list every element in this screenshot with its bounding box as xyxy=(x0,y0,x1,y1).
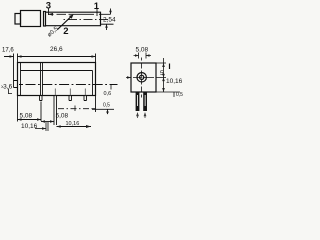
tick near centerline end xyxy=(110,85,112,90)
interior partition (pin1) xyxy=(41,63,43,96)
hidden pin lines inside body xyxy=(55,89,85,96)
svg-text:3: 3 xyxy=(46,1,51,12)
top view: body xyxy=(21,11,41,27)
svg-text:5,08: 5,08 xyxy=(20,113,33,120)
dim line pin2 to right xyxy=(57,126,92,128)
inner liner top xyxy=(21,70,93,72)
top view: end cap xyxy=(15,14,21,25)
tick below bottom ext xyxy=(173,92,175,97)
top view: collar xyxy=(44,12,46,27)
lead 1 centerline with left arrow xyxy=(48,13,111,15)
bushing inner circle xyxy=(140,75,144,79)
ext top edge right xyxy=(156,62,166,64)
bushing outer circle xyxy=(137,73,146,82)
svg-text:0,6: 0,6 xyxy=(104,91,112,97)
dim 10,16 line xyxy=(35,128,46,130)
svg-text:2,54: 2,54 xyxy=(103,17,116,24)
extension line stud left face xyxy=(13,54,15,81)
end view horizontal centerline xyxy=(126,77,150,79)
svg-text:1: 1 xyxy=(94,1,100,12)
svg-text:10,16: 10,16 xyxy=(166,78,183,85)
dim 2,54 ticks above xyxy=(139,53,147,59)
tick on extended line xyxy=(107,109,109,114)
svg-text:17,6: 17,6 xyxy=(2,48,14,54)
end view vertical centerline xyxy=(141,58,143,98)
extension body right xyxy=(95,54,97,63)
pin1 extension down xyxy=(40,102,42,122)
dim line 1,76 / 26,6 xyxy=(4,56,96,58)
dim line 5,08 second xyxy=(41,121,54,123)
bottom bent lead xyxy=(101,23,114,25)
dim 10,16 extension xyxy=(46,122,48,131)
svg-text:5,08: 5,08 xyxy=(136,47,149,54)
right edge extension down xyxy=(95,96,97,113)
extension body left xyxy=(17,54,19,63)
tick on dash line xyxy=(74,106,76,112)
svg-text:›3,6: ›3,6 xyxy=(1,84,13,91)
svg-text:0,5: 0,5 xyxy=(103,103,110,109)
pin 4 xyxy=(84,96,87,101)
diagonal leader to lead xyxy=(58,16,72,29)
tube axis centerline xyxy=(64,19,109,21)
inner liner left xyxy=(20,63,22,96)
main centerline xyxy=(19,84,118,86)
svg-text:5: 5 xyxy=(160,70,164,77)
small tick for 10,16 xyxy=(169,64,171,70)
bushing center dot xyxy=(141,77,142,78)
top view: tube outline xyxy=(46,12,101,26)
left edge extension down xyxy=(17,96,19,122)
inner liner right xyxy=(92,71,94,96)
dim vertical line xyxy=(163,58,165,92)
ext centerline right xyxy=(150,77,166,79)
label 3 extension line xyxy=(48,9,50,16)
main body rectangle xyxy=(18,63,96,96)
end view pin left xyxy=(136,92,140,111)
svg-text:26,6: 26,6 xyxy=(50,46,63,53)
left stud xyxy=(14,81,18,88)
pin 3 xyxy=(69,96,72,101)
pin tip arrows xyxy=(136,112,139,116)
ext bottom edge right xyxy=(156,91,180,93)
svg-text:10,16: 10,16 xyxy=(66,121,80,127)
svg-text:10,16: 10,16 xyxy=(21,123,38,130)
dim line 5,08 first xyxy=(18,119,42,121)
pin 1 xyxy=(40,96,43,101)
end view pin right xyxy=(143,92,147,111)
dim 2,54 vertical ticks xyxy=(107,9,111,31)
pin 2 + extension xyxy=(54,96,57,126)
stud lower mark xyxy=(9,89,13,95)
label 1 extension line xyxy=(96,9,98,16)
svg-text:0,5: 0,5 xyxy=(176,92,183,98)
svg-text:2: 2 xyxy=(63,26,68,37)
svg-text:5,08: 5,08 xyxy=(56,113,69,120)
dim line to right edge (dash-dot) xyxy=(58,108,114,111)
end view outline xyxy=(131,63,156,92)
